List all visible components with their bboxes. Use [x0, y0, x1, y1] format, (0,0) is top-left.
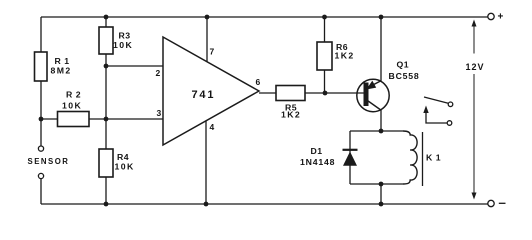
- svg-text:8M2: 8M2: [51, 66, 72, 76]
- wire Q1 emitter to top rail: [380, 17, 382, 81]
- svg-text:12V: 12V: [466, 62, 485, 72]
- wire R6 top stub: [324, 17, 326, 42]
- wire R4 bottom stub: [105, 177, 107, 204]
- pin 4 wire: [205, 121, 207, 204]
- wire collector to ground rail: [380, 184, 382, 204]
- svg-text:7: 7: [210, 47, 215, 57]
- svg-text:D1: D1: [311, 146, 323, 156]
- svg-text:BC558: BC558: [389, 71, 420, 81]
- resistor R1: [35, 52, 72, 81]
- 12V measure line upper: [473, 21, 475, 54]
- resistor R3: [99, 27, 133, 54]
- svg-text:R 1: R 1: [55, 56, 70, 66]
- svg-text:R 2: R 2: [66, 90, 81, 100]
- wire relay loop left: [349, 131, 351, 184]
- wire relay loop top: [350, 130, 403, 132]
- pin 7 wire: [206, 17, 208, 62]
- wire Q1 collector down: [380, 110, 382, 131]
- wire bottom rail: [41, 203, 488, 205]
- resistor R5: [276, 86, 305, 120]
- relay contact wire: [426, 111, 447, 123]
- svg-text:10K: 10K: [62, 101, 82, 111]
- sensor terminal upper: [38, 146, 43, 151]
- svg-text:10K: 10K: [115, 162, 135, 172]
- svg-text:4: 4: [210, 122, 215, 132]
- svg-text:+: +: [498, 12, 504, 23]
- wire relay loop bottom: [350, 183, 403, 185]
- svg-text:10K: 10K: [113, 40, 133, 50]
- svg-text:2: 2: [156, 68, 161, 78]
- wire R2 left: [41, 118, 58, 120]
- relay contact blade: [424, 97, 448, 103]
- svg-text:SENSOR: SENSOR: [28, 157, 70, 166]
- resistor R2: [58, 90, 90, 127]
- resistor R4: [99, 149, 135, 177]
- svg-text:R4: R4: [117, 152, 129, 162]
- wire left rail lower: [40, 179, 42, 204]
- relay contact upper terminal: [448, 102, 453, 107]
- svg-text:1K2: 1K2: [335, 51, 355, 61]
- 12V measure line lower: [473, 74, 475, 198]
- svg-text:741: 741: [192, 89, 216, 101]
- wire top rail: [41, 16, 488, 18]
- wire output to R5: [259, 92, 276, 94]
- 12V arrow down: [472, 193, 477, 200]
- svg-text:6: 6: [256, 77, 261, 87]
- wire left rail mid: [40, 81, 42, 146]
- svg-text:R3: R3: [119, 30, 131, 40]
- relay coil K1: [403, 131, 441, 186]
- sensor terminal lower: [38, 173, 43, 178]
- svg-text:1N4148: 1N4148: [300, 157, 335, 167]
- - label: [499, 202, 506, 204]
- wire R6 bottom stub: [324, 70, 326, 93]
- wire R3 top stub: [105, 17, 107, 27]
- wire R5 to base: [305, 92, 364, 94]
- wire left rail upper: [40, 17, 42, 52]
- svg-text:1K2: 1K2: [281, 110, 301, 120]
- relay contact lower terminal: [447, 121, 452, 126]
- wire pin 2: [106, 65, 163, 67]
- relay contact arrow: [423, 106, 428, 114]
- op-amp U1 741: [163, 37, 259, 145]
- svg-text:K 1: K 1: [426, 153, 441, 163]
- wire R2 to pin 3: [89, 118, 163, 120]
- svg-text:3: 3: [157, 108, 162, 118]
- - terminal: [488, 200, 494, 206]
- wire R3 bottom to R4: [105, 54, 107, 149]
- svg-text:Q1: Q1: [397, 60, 410, 70]
- 12V arrow up: [472, 20, 477, 27]
- + terminal: [488, 13, 494, 19]
- transistor Q1: [357, 60, 420, 112]
- diode D1: [300, 146, 358, 167]
- resistor R6: [317, 42, 355, 70]
